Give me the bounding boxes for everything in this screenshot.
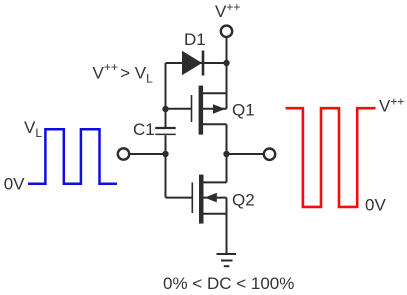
svg-text:Q2: Q2 bbox=[232, 191, 255, 210]
svg-text:0% < DC < 100%: 0% < DC < 100% bbox=[163, 274, 294, 293]
svg-text:D1: D1 bbox=[184, 30, 206, 49]
svg-text:V++ > VL: V++ > VL bbox=[93, 60, 154, 86]
svg-text:C1: C1 bbox=[133, 120, 155, 139]
svg-text:0V: 0V bbox=[4, 175, 25, 194]
svg-text:0V: 0V bbox=[365, 196, 386, 215]
svg-text:Q1: Q1 bbox=[232, 101, 255, 120]
